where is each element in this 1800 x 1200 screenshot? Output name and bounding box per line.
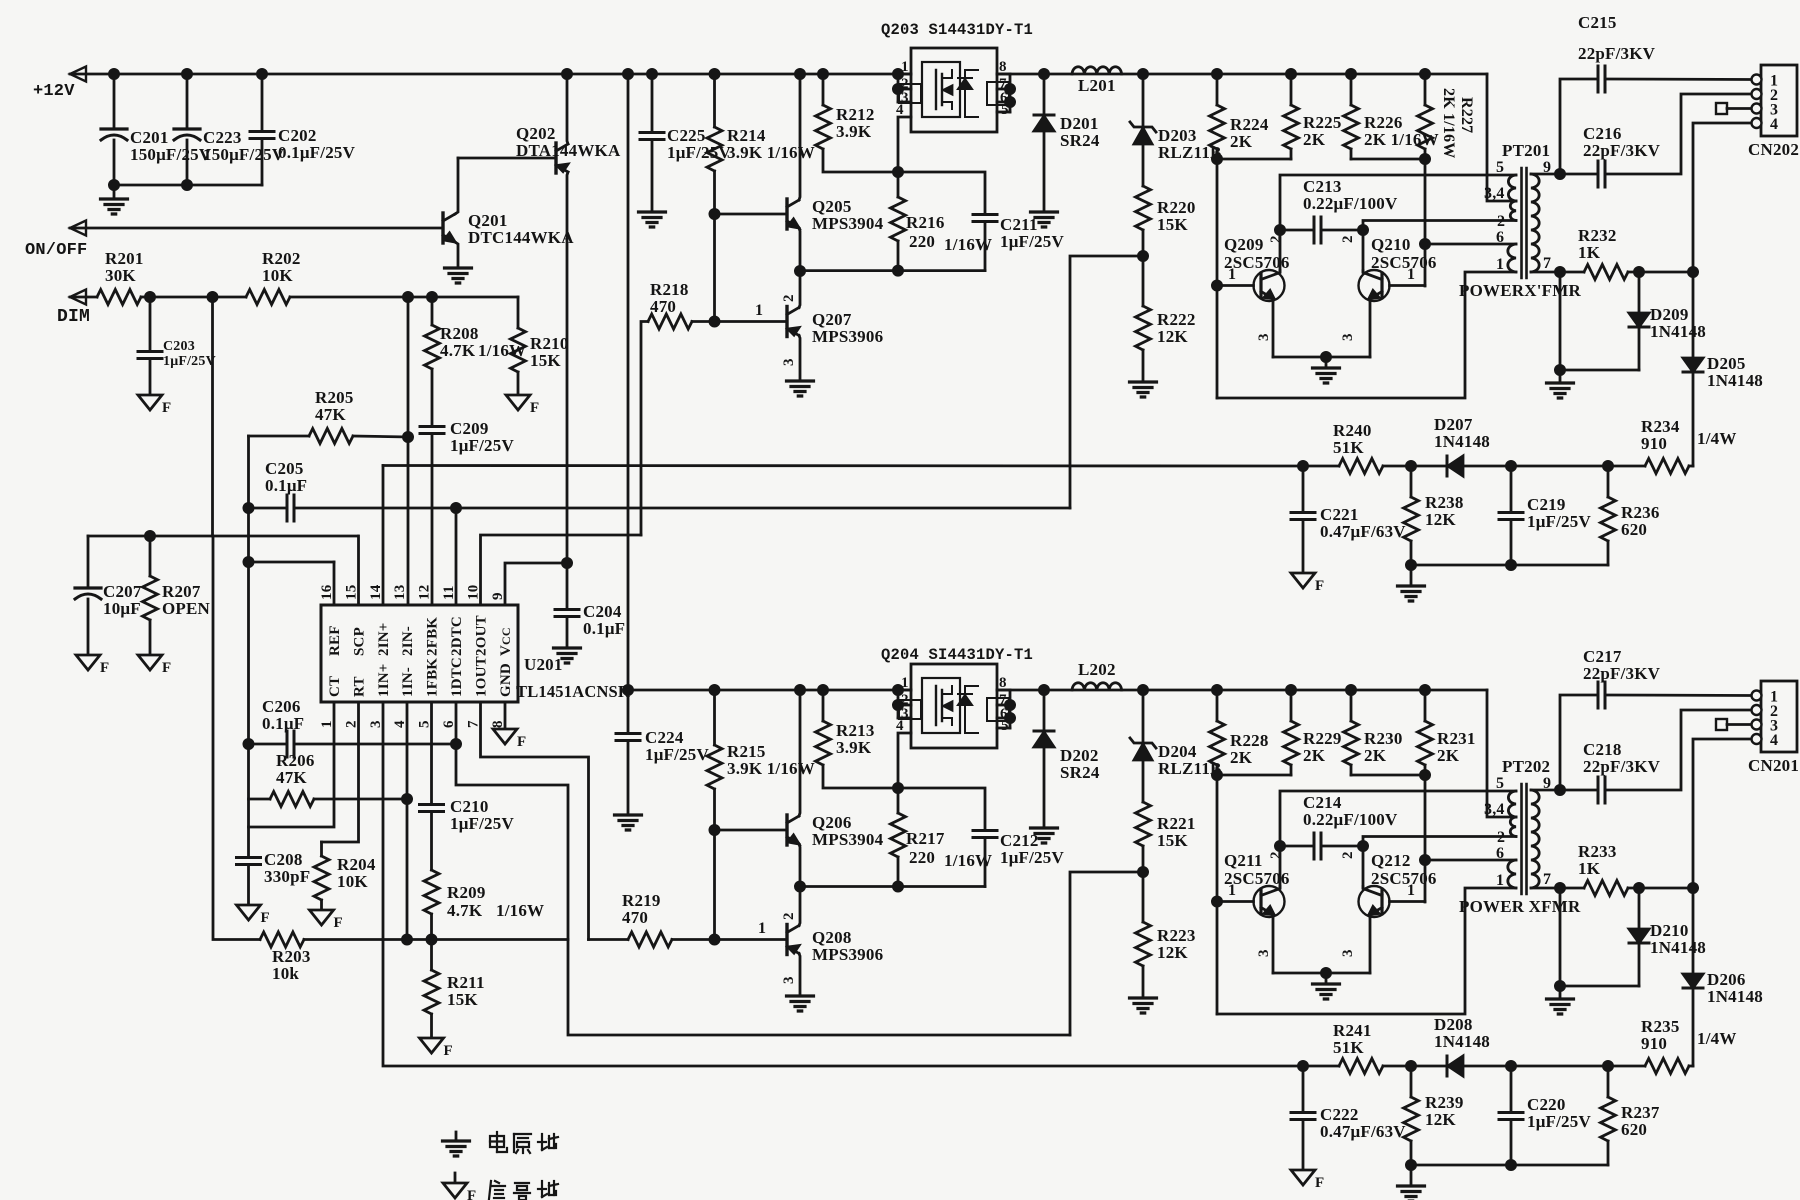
svg-text:2SC5706: 2SC5706 [1371,869,1437,888]
svg-text:1: 1 [1496,872,1504,889]
op-amp U201 TL1451ACNSR box [321,605,518,702]
wire 2IN+ feedback line [383,464,1303,467]
svg-text:2IN+: 2IN+ [376,622,392,656]
svg-text:VCC: VCC [498,627,514,656]
svg-text:4.7K: 4.7K [440,341,476,360]
svg-text:1μF/25V: 1μF/25V [1000,232,1064,251]
wire Q211/Q212 emitters [1273,972,1370,975]
svg-text:2: 2 [1340,851,1356,859]
svg-text:DIM: DIM [57,307,90,327]
diode D206 1N4148 [1683,974,1703,988]
svg-text:1μF/25V: 1μF/25V [163,354,216,369]
power ground below C201 [113,185,116,199]
wire +12V to bottom channel column [627,74,630,690]
svg-text:620: 620 [1621,520,1647,539]
diode D201 SR24 [1039,69,1048,78]
Q210 emitter down [1369,300,1372,357]
U201 pin15 stub SCP [357,536,360,605]
resistor R231 2K [1420,685,1429,694]
wire cap bottoms [114,184,262,187]
node ON/OFF input arrow [70,221,86,236]
capacitor C206 [249,743,287,746]
svg-text:L201: L201 [1078,76,1116,95]
svg-text:6: 6 [1496,229,1504,246]
svg-text:2K: 2K [1230,132,1253,151]
svg-text:0.47μF/63V: 0.47μF/63V [1320,1122,1406,1141]
capacitor C217 22pF/3KV [1560,695,1597,790]
svg-text:F: F [444,1043,453,1059]
wire xfmr pin7 bottom [1531,887,1560,890]
wire 2IN- column pin13 [407,297,410,605]
resistor R238 12K [1410,466,1413,497]
capacitor C216 22pF/3KV [1560,173,1597,176]
svg-text:3,4: 3,4 [1484,185,1505,202]
svg-text:3.9K: 3.9K [836,738,872,757]
svg-text:1N4148: 1N4148 [1650,322,1706,341]
resistor R227 2K 1/16W [1420,69,1429,78]
svg-text:1IN+: 1IN+ [376,663,392,697]
svg-text:2K: 2K [1437,746,1460,765]
U201 pin16 stub [333,562,336,605]
svg-text:1FBK: 1FBK [425,658,441,697]
svg-text:0.22μF/100V: 0.22μF/100V [1303,194,1398,213]
svg-text:L202: L202 [1078,660,1116,679]
resistor R232 1K [1560,271,1584,274]
svg-text:C203: C203 [163,339,195,354]
svg-text:3.9K: 3.9K [836,122,872,141]
svg-text:6: 6 [1496,845,1504,862]
svg-text:F: F [261,910,270,926]
diode D205 1N4148 [1692,357,1695,360]
svg-text:1K: 1K [1578,859,1601,878]
U201 pin14 stub 2IN+ [382,466,385,606]
capacitor C225 [651,74,654,130]
svg-text:1K: 1K [1578,243,1601,262]
wire ON/OFF to Q201 base [70,227,443,230]
svg-text:10K: 10K [262,266,293,285]
svg-text:1/4W: 1/4W [1697,429,1737,448]
wire CN201 pin4 to D206 [1693,739,1751,1066]
svg-text:10K: 10K [337,872,368,891]
connector CN202 [1761,65,1797,136]
CN202 pin3 test pad [1716,103,1727,114]
svg-text:0.1μF: 0.1μF [583,619,625,638]
transistor Q208 MPS3906 [785,925,788,955]
wire R224-R225 bottoms [1217,158,1291,161]
wire feedback row D208 to R237 [1463,1065,1645,1068]
svg-text:10μF: 10μF [103,599,141,618]
capacitor C220 1uF/25V [1506,1061,1515,1070]
svg-text:12K: 12K [1157,327,1188,346]
Q209 emitter down [1272,300,1275,357]
wire R205 left to C205 line [247,436,250,858]
Q204 pin stubs [898,689,911,692]
resistor R202 10K [150,296,246,299]
svg-text:1/16W: 1/16W [496,901,544,920]
svg-text:0.1μF: 0.1μF [265,476,307,495]
svg-text:2: 2 [1268,235,1284,243]
U201 pin9 stub Vcc [505,563,567,605]
resistor R237 620 [1603,1061,1612,1070]
svg-text:1N4148: 1N4148 [1707,987,1763,1006]
svg-text:0.1μF/25V: 0.1μF/25V [278,143,356,162]
svg-text:1DTC: 1DTC [449,657,465,697]
svg-text:3: 3 [1340,949,1356,957]
svg-text:470: 470 [622,908,648,927]
svg-text:1: 1 [755,302,763,319]
legend text xin-hao-di (signal ground) [489,1181,491,1199]
resistor R222 12K [1136,306,1151,350]
capacitor C207 10uF [87,536,90,588]
svg-text:2: 2 [1268,851,1284,859]
wire SCP line [88,535,358,538]
svg-text:F: F [162,660,171,676]
svg-text:22pF/3KV: 22pF/3KV [1578,44,1656,63]
svg-text:MPS3906: MPS3906 [812,945,883,964]
transistor Q210 2SC5706 [1359,270,1390,301]
svg-text:10k: 10k [272,964,299,983]
diode D210 1N4148 [1638,888,1641,929]
svg-text:22pF/3KV: 22pF/3KV [1583,141,1661,160]
svg-text:PT201: PT201 [1502,141,1550,160]
svg-text:12K: 12K [1425,1110,1456,1129]
capacitor C218 22pF/3KV [1560,789,1597,792]
transistor Q206 MPS3904 [713,690,716,745]
resistor R230 2K [1346,685,1355,694]
transistor Q201 DTC144WKA [441,213,444,243]
svg-text:MPS3906: MPS3906 [812,327,883,346]
svg-text:2OUT: 2OUT [474,615,490,656]
svg-text:2: 2 [781,294,797,302]
connector CN201 [1761,681,1797,752]
Q209 collector to xfmr pin5 [1280,175,1516,272]
capacitor C215 22pF/3KV [1560,79,1597,174]
svg-text:910: 910 [1641,1034,1667,1053]
svg-text:12K: 12K [1157,943,1188,962]
svg-text:15K: 15K [530,351,561,370]
U201 pin11 stub 2DTC [455,508,458,605]
svg-text:2K: 2K [1303,130,1326,149]
wire xfmr pin6 to R227 column [1425,243,1516,246]
wire R230-R231 bottoms [1351,774,1425,777]
U201 pin3 stub 1IN+ [383,702,1303,1066]
svg-text:SCP: SCP [352,627,368,656]
svg-text:2: 2 [781,912,797,920]
capacitor C212 [898,788,985,828]
svg-text:220: 220 [909,848,935,867]
svg-text:3: 3 [1256,949,1272,957]
svg-text:1N4148: 1N4148 [1434,1032,1490,1051]
svg-text:R227: R227 [1458,97,1475,133]
svg-text:2K: 2K [1230,748,1253,767]
svg-text:15K: 15K [1157,831,1188,850]
wire bottom divider sense to 1DTC line [1070,872,1143,1035]
svg-text:Q210: Q210 [1371,235,1411,254]
svg-text:1N4148: 1N4148 [1434,432,1490,451]
U201 pin4 stub 1IN- [406,702,409,940]
svg-text:1N4148: 1N4148 [1707,371,1763,390]
transistor Q202 DTA144WKA [458,157,556,160]
svg-text:1/4W: 1/4W [1697,1029,1737,1048]
capacitor C223 [186,74,189,129]
transistor Q212 2SC5706 [1359,886,1390,917]
wire R239/C220/R237 bottoms [1411,1164,1608,1167]
svg-text:F: F [1315,1175,1324,1191]
wire R238/C219/R236 bottoms [1411,564,1608,567]
svg-text:Q204 SI4431DY-T1: Q204 SI4431DY-T1 [881,646,1033,664]
svg-text:7: 7 [1543,871,1551,888]
diode D202 SR24 [1039,685,1048,694]
transistor Q209 2SC5706 [1212,281,1221,290]
wire Q209/Q210 emitters [1273,356,1370,359]
svg-text:C215: C215 [1578,13,1617,32]
svg-text:Q209: Q209 [1224,235,1264,254]
svg-text:4: 4 [896,102,904,118]
svg-text:Q212: Q212 [1371,851,1411,870]
CN201 pin3 test pad [1716,719,1727,730]
svg-text:2DTC: 2DTC [449,616,465,656]
U201 pin8 stub GND [504,702,507,729]
svg-text:1μF/25V: 1μF/25V [1000,848,1064,867]
U201 pin2 stub RT [322,702,359,842]
Q204 gate pin 4 [898,733,911,788]
svg-text:R209: R209 [447,883,486,902]
svg-text:8: 8 [999,675,1007,691]
svg-text:0.47μF/63V: 0.47μF/63V [1320,522,1406,541]
wire DIM divider vertical [211,297,214,536]
resistor R233 1K [1560,887,1584,890]
svg-text:910: 910 [1641,434,1667,453]
legend power ground symbol [455,1132,458,1141]
svg-text:MPS3904: MPS3904 [812,830,884,849]
wire snubber bottom to Q205/Q207 node [800,269,985,272]
wire rail corner to xfmr tap 3,4 [1487,74,1516,201]
svg-text:2SC5706: 2SC5706 [1371,253,1437,272]
svg-text:5: 5 [1496,159,1504,176]
svg-text:1μF/25V: 1μF/25V [450,436,514,455]
svg-text:MPS3904: MPS3904 [812,214,884,233]
svg-text:F: F [467,1188,476,1200]
Q203 pin stubs [898,73,911,76]
Q212 collector to xfmr pin2 [1363,837,1516,889]
svg-text:ON/OFF: ON/OFF [25,241,87,260]
wire 2DTC sense line [295,507,1070,510]
legend text dian-yuan-di (power ground) [490,1136,504,1147]
svg-text:1OUT: 1OUT [474,656,490,697]
svg-text:CT: CT [327,676,343,697]
svg-text:2: 2 [1340,235,1356,243]
svg-text:DTA144WKA: DTA144WKA [516,141,621,160]
svg-text:F: F [100,660,109,676]
resistor R234 910 1/4W [1645,459,1689,474]
capacitor C205 [244,503,253,512]
svg-text:REF: REF [327,625,343,656]
U201 pin5 stub 1FBK / C210 [430,702,433,802]
svg-text:8: 8 [999,59,1007,75]
wire R219 junction to Q208 base [715,938,788,941]
Q212 emitter down [1369,916,1372,973]
svg-text:51K: 51K [1333,1038,1364,1057]
svg-text:47K: 47K [276,768,307,787]
wire R228-R229 bottoms [1217,774,1291,777]
capacitor C204 [566,563,569,607]
resistor R229 2K [1286,685,1295,694]
resistor R236 620 [1603,461,1612,470]
wire REF line to pin16 [249,561,335,564]
wire top divider sense to 2DTC line [1070,256,1143,508]
svg-text:3.9K 1/16W: 3.9K 1/16W [727,143,815,162]
U201 pin10 stub 2OUT [481,535,642,605]
svg-text:F: F [1315,578,1324,594]
svg-text:TL1451ACNSR: TL1451ACNSR [516,682,631,701]
transistor Q207 MPS3906 [785,307,788,337]
svg-text:Q211: Q211 [1224,851,1263,870]
capacitor C211 [898,172,985,212]
resistor R204 10K [320,842,323,856]
resistor R207 OPEN [145,531,154,540]
svg-text:150μF/25V: 150μF/25V [203,145,285,164]
wire xfmr pin6 to R231 column [1425,859,1516,862]
resistor R219 470 [589,938,629,941]
wire CN202 pin4 to D205 [1693,123,1751,466]
svg-text:13: 13 [392,585,408,600]
svg-text:2K 1/16W: 2K 1/16W [1440,88,1457,159]
svg-text:F: F [162,400,171,416]
svg-text:4: 4 [896,718,904,734]
svg-text:220: 220 [909,232,935,251]
diode D207 1N4148 [1446,456,1449,476]
diode D208 1N4148 [1446,1056,1449,1076]
svg-text:7: 7 [1543,255,1551,272]
svg-text:POWERX'FMR: POWERX'FMR [1459,281,1581,300]
svg-text:2K: 2K [1303,746,1326,765]
svg-text:3: 3 [781,976,797,984]
U201 pin7 stub 1OUT [481,702,589,940]
svg-text:1μF/25V: 1μF/25V [645,745,709,764]
svg-text:U201: U201 [524,655,563,674]
resistor R239 12K [1410,1066,1413,1097]
capacitor C224 [627,690,630,731]
U201 pin1 stub CT [249,702,335,827]
svg-text:4: 4 [1770,116,1778,133]
svg-text:1: 1 [1496,256,1504,273]
wire xfmr pin7 [1531,271,1560,274]
Q211 collector to xfmr pin5 [1280,791,1516,888]
svg-text:F: F [334,915,343,931]
svg-text:620: 620 [1621,1120,1647,1139]
svg-text:12: 12 [417,585,433,600]
wire +12V rail top [70,73,911,76]
capacitor C201 [113,74,116,129]
resistor R226 2K 1/16W [1346,69,1355,78]
resistor R216 220 snubber [893,167,902,176]
svg-text:POWER XFMR: POWER XFMR [1459,897,1581,916]
svg-text:150μF/25V: 150μF/25V [130,145,212,164]
U201 pin6 stub 1DTC [456,702,1070,1035]
svg-text:OPEN: OPEN [162,599,211,618]
inductor L202 [1072,683,1122,690]
wire 2IN+ feedback row right [1298,461,1307,470]
svg-text:CN202: CN202 [1748,140,1799,159]
svg-text:PT202: PT202 [1502,757,1550,776]
svg-text:SR24: SR24 [1060,131,1100,150]
svg-text:15K: 15K [447,990,478,1009]
svg-text:2K: 2K [1364,746,1387,765]
capacitor C213 0.22uF/100V [1280,229,1313,232]
svg-text:F: F [517,734,526,750]
resistor R212 3.9K [822,74,825,105]
resistor R240 51K [1303,465,1339,468]
node +12V input arrow [70,67,86,82]
svg-text:4: 4 [1770,732,1778,749]
svg-text:R217: R217 [906,829,945,848]
Q203 gate pin 4 [898,117,911,172]
transistor Q211 2SC5706 [1212,897,1221,906]
resistor R208 4.7K [431,297,434,325]
resistor R213 3.9K [822,690,825,721]
svg-text:470: 470 [650,297,676,316]
wire xfmr pin1 return [1217,272,1516,398]
resistor R223 12K [1136,922,1151,966]
svg-text:330pF: 330pF [264,867,310,886]
resistor R217 220 snubber [893,783,902,792]
svg-text:1: 1 [901,59,909,75]
svg-text:DTC144WKA: DTC144WKA [468,228,574,247]
svg-text:2IN-: 2IN- [400,626,416,656]
resistor R210 15K [517,297,520,328]
capacitor C203 [145,292,154,301]
resistor R201 30K [70,296,97,299]
capacitor C221 0.47uF/63V [1302,466,1305,510]
svg-text:1μF/25V: 1μF/25V [1527,1112,1591,1131]
svg-text:GND: GND [498,663,514,697]
wire R226-R227 bottoms [1351,158,1425,161]
svg-text:1/16W: 1/16W [478,341,526,360]
svg-text:3.9K 1/16W: 3.9K 1/16W [727,759,815,778]
wire feedback row D207 to R236 [1463,465,1645,468]
diode D209 1N4148 [1638,272,1641,313]
svg-text:5: 5 [1001,102,1009,118]
svg-text:1: 1 [901,675,909,691]
svg-text:47K: 47K [315,405,346,424]
diode D204 RLZ11B zener [1138,685,1147,694]
svg-text:3: 3 [781,358,797,366]
legend signal ground symbol [454,1173,457,1183]
svg-text:F: F [530,400,539,416]
svg-text:Q203 S14431DY-T1: Q203 S14431DY-T1 [881,21,1033,39]
resistor R215 3.9K [707,745,722,789]
resistor R225 2K [1286,69,1295,78]
resistor R205 47K [249,435,310,438]
svg-text:22pF/3KV: 22pF/3KV [1583,664,1661,683]
svg-text:1: 1 [758,920,766,937]
svg-text:2: 2 [1497,829,1505,846]
resistor R221 15K [1136,802,1151,846]
resistor R220 15K [1136,186,1151,230]
resistor R209 4.7K [424,870,439,914]
svg-text:51K: 51K [1333,438,1364,457]
capacitor C222 0.47uF/63V [1302,1066,1305,1110]
resistor R211 15K [424,970,439,1014]
resistor R235 910 1/4W [1645,1059,1689,1074]
svg-text:3: 3 [1256,333,1272,341]
svg-text:15K: 15K [1157,215,1188,234]
svg-text:2FBK: 2FBK [425,617,441,656]
transistor Q205 MPS3904 [715,213,788,216]
Q210 collector to xfmr pin2 [1363,221,1516,273]
wire 1IN+ feedback row right components [1298,1061,1307,1070]
svg-text:22pF/3KV: 22pF/3KV [1583,757,1661,776]
